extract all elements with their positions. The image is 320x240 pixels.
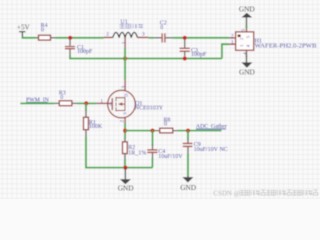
junction C3 top: [183, 36, 187, 40]
svg-text:3: 3: [142, 32, 145, 38]
resistor R1: [84, 110, 103, 137]
junction C3 bottom on lower rail: [183, 56, 187, 60]
wire R1 bottom to low rail: [86, 137, 152, 168]
junction lower rail / mosfet column: [123, 56, 127, 60]
wire C9 bottom to GND: [187, 154, 189, 177]
wire R2 bottom to low rail: [124, 159, 126, 167]
capacitor C1: [65, 39, 93, 56]
junction at R4/C1 node: [68, 36, 72, 40]
ground GND top (above H1): [239, 4, 255, 28]
ground GND below H1: [239, 55, 255, 76]
net label PWM_IN: [26, 98, 50, 104]
wire C4 bottom to low rail: [151, 158, 153, 167]
svg-text:1R_1%: 1R_1%: [128, 151, 146, 157]
wire C1 bottom corner to lower rail: [70, 55, 222, 58]
capacitor C9: [183, 131, 228, 155]
svg-text:GND: GND: [239, 4, 255, 13]
power port +5V: [17, 24, 31, 37]
wire +5V corner to R4: [22, 36, 36, 38]
junction source node: [123, 129, 127, 133]
svg-text:+5V: +5V: [17, 24, 31, 32]
svg-text:2: 2: [231, 33, 234, 39]
wire Q1 drain column (lower rail to circle): [124, 48, 126, 79]
inductor U1: [104, 19, 149, 48]
ground GND bottom right: [180, 176, 196, 192]
wire R8 to ADC node: [177, 130, 221, 132]
watermark CSDN: [213, 189, 317, 197]
svg-text:0: 0: [41, 28, 44, 34]
resistor R2: [123, 138, 147, 160]
ground GND bottom left: [118, 168, 134, 192]
connector H1: [229, 26, 317, 57]
wire R3 to Q1 gate: [77, 102, 96, 104]
svg-text:100K: 100K: [89, 124, 103, 130]
mid rail wire: [125, 130, 155, 132]
resistor R4: [36, 23, 55, 40]
wire riser to H1 pin 1: [222, 44, 229, 58]
svg-text:10uF/10V NC: 10uF/10V NC: [194, 147, 228, 153]
svg-text:100pF: 100pF: [77, 49, 93, 55]
svg-text:2: 2: [106, 32, 109, 38]
wire C2 to H1 pin 2: [173, 37, 229, 39]
junction low rail GND node: [123, 166, 127, 170]
svg-text:3: 3: [121, 86, 127, 89]
svg-text:1: 1: [231, 40, 234, 46]
junction C9 top: [186, 129, 190, 133]
resistor R8: [155, 117, 177, 132]
wire U1 pin3 to C2: [149, 37, 154, 39]
svg-text:10uF/10V: 10uF/10V: [158, 154, 183, 160]
svg-text:0: 0: [60, 95, 63, 101]
svg-text:GND: GND: [180, 183, 196, 192]
net label ADC_Gather: [196, 124, 227, 130]
svg-text:CSDN @: CSDN @: [213, 189, 240, 197]
svg-text:0: 0: [160, 25, 163, 31]
junction C4 top: [150, 129, 154, 133]
svg-text:2: 2: [119, 120, 125, 123]
svg-text:GND: GND: [118, 183, 134, 192]
svg-text:WAFER-PH2.0-2PWB: WAFER-PH2.0-2PWB: [255, 42, 317, 49]
svg-text:1: 1: [122, 41, 128, 44]
capacitor C3: [180, 39, 208, 58]
capacitor C4: [147, 131, 183, 161]
wire PWM_IN to R3: [20, 102, 54, 104]
svg-text:100pF: 100pF: [191, 52, 207, 58]
capacitor C2: [154, 21, 173, 43]
svg-text:0: 0: [164, 122, 167, 128]
svg-text:D: D: [124, 94, 129, 97]
svg-text:NCE0103Y: NCE0103Y: [135, 106, 164, 112]
svg-text:1: 1: [100, 99, 103, 105]
transistor Q1: [96, 79, 163, 124]
junction gate / R1 node: [84, 101, 88, 105]
resistor R3: [54, 91, 77, 106]
wire Q1 source to mid rail junction: [124, 123, 126, 138]
wire R1 branch down: [85, 103, 87, 110]
svg-text:GND: GND: [239, 67, 255, 76]
wire R4 to junction to U1: [55, 37, 103, 39]
